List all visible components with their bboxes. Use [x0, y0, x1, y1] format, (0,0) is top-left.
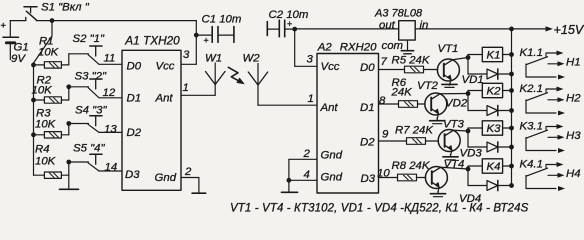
- wire S5 to D3 pin 14: [99, 170, 122, 172]
- junction rail K2: [509, 88, 514, 93]
- svg-text:A3 78L08: A3 78L08: [374, 8, 423, 20]
- svg-text:K1: K1: [487, 50, 501, 62]
- svg-text:VT3: VT3: [443, 119, 465, 131]
- svg-text:VT1 - VT4 - КТ3102, VD1 - VD4: VT1 - VT4 - КТ3102, VD1 - VD4 -КД522, К1…: [230, 203, 529, 215]
- antenna W2: [248, 64, 267, 106]
- junction stage 4 node: [66, 160, 71, 165]
- svg-text:H1: H1: [566, 57, 581, 69]
- A1 pin labels: [125, 61, 177, 185]
- svg-text:K4.1: K4.1: [520, 159, 543, 171]
- svg-text:+: +: [204, 36, 209, 46]
- svg-text:8: 8: [379, 95, 386, 107]
- A2 pin 2 Gnd wire: [289, 148, 317, 160]
- svg-text:+15V: +15V: [554, 23, 584, 37]
- junction rail K1: [509, 52, 514, 57]
- relay contact K4.1: [526, 162, 565, 191]
- svg-text:1: 1: [308, 93, 314, 105]
- wire VT3 collector to node: [453, 129, 468, 132]
- svg-text:D2: D2: [127, 127, 142, 139]
- svg-text:A1 TXH20: A1 TXH20: [124, 34, 180, 48]
- svg-text:D1: D1: [360, 102, 375, 114]
- wire VT4 emitter to ground: [438, 187, 439, 193]
- resistor R6 24K: [399, 101, 426, 108]
- svg-text:13: 13: [104, 124, 117, 136]
- +15V arrow: [546, 26, 554, 31]
- svg-text:com: com: [382, 40, 404, 52]
- transistor VT2: [425, 93, 447, 116]
- wire VT3 emitter to ground: [451, 150, 452, 156]
- svg-text:11: 11: [104, 53, 116, 65]
- svg-text:10K: 10K: [38, 47, 60, 59]
- wire junction down-diagonal to resistor rail: [34, 21, 53, 66]
- switch S2: [69, 46, 102, 64]
- label R5 24K: [392, 55, 431, 67]
- resistor R1 10K: [34, 62, 69, 68]
- wire node vertical stage 3: [68, 124, 70, 135]
- wire +supply to A3: [295, 28, 399, 30]
- svg-text:R4: R4: [35, 144, 50, 156]
- diode VD2: [468, 105, 512, 115]
- svg-text:W1: W1: [205, 53, 222, 65]
- svg-text:3: 3: [183, 49, 190, 61]
- wire S1 to C1 node (+9V): [36, 20, 196, 22]
- junction rail K4: [509, 164, 514, 169]
- relay supply rail: [511, 29, 513, 186]
- label R4 10K: [35, 144, 57, 168]
- ground A1: [198, 178, 200, 194]
- svg-text:A2: A2: [317, 41, 333, 53]
- svg-text:D0: D0: [360, 62, 375, 74]
- junction rail VD4: [509, 183, 514, 188]
- junction stage 2 node: [66, 84, 71, 89]
- svg-text:12: 12: [103, 87, 116, 99]
- wire A3 to +15V rail: [415, 28, 546, 30]
- ground VT3: [443, 154, 458, 160]
- svg-text:S4 "3": S4 "3": [75, 105, 107, 117]
- transistor VT3: [438, 130, 460, 153]
- switch S5: [69, 154, 102, 171]
- wire A2 D0 pin 7: [379, 69, 405, 71]
- wire node vertical stage 4: [68, 162, 70, 188]
- ground VT2: [430, 118, 445, 124]
- svg-text:10: 10: [377, 168, 390, 180]
- transistor VT4: [425, 167, 447, 190]
- label R6 24K: [391, 77, 414, 99]
- +9V resistor rail (left): [33, 65, 35, 175]
- A2 pin labels: [320, 61, 376, 185]
- wire node vertical stage 1: [68, 54, 70, 65]
- svg-text:Vcc: Vcc: [321, 61, 340, 73]
- svg-text:VT2: VT2: [417, 80, 439, 92]
- svg-text:10K: 10K: [32, 85, 54, 97]
- wire VT2 collector to node: [440, 93, 468, 95]
- relay contact K2.1: [526, 87, 565, 116]
- wire S2 to D0 pin 11: [99, 63, 122, 65]
- relay coil K2: [468, 83, 512, 97]
- ground TX bottom: [60, 188, 79, 190]
- svg-text:S3 "2": S3 "2": [75, 71, 107, 83]
- svg-text:D0: D0: [127, 61, 142, 73]
- svg-text:R7 24K: R7 24K: [395, 125, 434, 137]
- junction collector node VT4: [466, 167, 471, 172]
- label G1 9V: [11, 42, 29, 66]
- svg-text:R5 24K: R5 24K: [392, 55, 431, 67]
- svg-text:S1 "Вкл ": S1 "Вкл ": [41, 2, 90, 14]
- wire A2 D3 pin 10: [379, 177, 398, 179]
- relay coil K3: [468, 121, 512, 135]
- wire S4 to D2 pin 13: [99, 131, 122, 133]
- svg-text:10K: 10K: [35, 119, 57, 131]
- ground A2: [282, 191, 298, 193]
- switch S3: [69, 79, 102, 98]
- junction relay supply rail: [509, 27, 514, 32]
- junction stage 3 node: [66, 121, 71, 126]
- svg-text:H2: H2: [566, 93, 581, 105]
- A1 pin 1 Ant wire: [181, 82, 215, 95]
- wire node vertical stage 2: [68, 87, 70, 100]
- svg-text:K2: K2: [487, 86, 502, 98]
- svg-text:Vcc: Vcc: [156, 61, 175, 73]
- svg-text:2: 2: [303, 148, 311, 160]
- resistor R5 24K: [405, 66, 438, 73]
- wire node vertical K3/VD3: [467, 128, 469, 147]
- IC A1 TXH20 box: [122, 50, 181, 190]
- junction collector node VT2: [466, 91, 471, 96]
- wire W2 to A2 pin 1: [258, 104, 317, 106]
- svg-text:1: 1: [183, 82, 189, 94]
- svg-text:K1.1: K1.1: [520, 47, 543, 59]
- svg-text:D3: D3: [361, 173, 376, 185]
- junction rail-R2: [31, 98, 36, 103]
- junction collector node VT1: [466, 55, 471, 60]
- wire node vertical K2/VD2: [467, 91, 469, 111]
- node +9V junction after S1: [50, 18, 55, 23]
- svg-text:K4: K4: [487, 161, 501, 173]
- wire S3 to D1 pin 12: [99, 97, 122, 99]
- wire VT2 emitter to ground: [437, 114, 438, 120]
- IC A2 RXH20 box: [317, 54, 379, 194]
- junction rail K3: [509, 126, 514, 131]
- resistor R8 24K: [398, 174, 426, 181]
- junction rail VD3: [509, 145, 514, 150]
- svg-text:H3: H3: [566, 130, 581, 142]
- label R3 10K: [35, 108, 57, 131]
- svg-text:7: 7: [381, 56, 388, 68]
- label R2 10K: [32, 75, 54, 97]
- label R7 24K: [395, 125, 434, 137]
- ground A3: [407, 40, 409, 51]
- wire node vertical K1/VD1: [467, 55, 469, 75]
- svg-text:S5 "4": S5 "4": [73, 143, 105, 155]
- svg-text:4: 4: [304, 169, 310, 181]
- wire A2 Vcc pin 3: [295, 29, 317, 66]
- junction rail-R3: [31, 132, 36, 137]
- wire VT4 collector to node: [441, 167, 468, 169]
- switch S1: [24, 7, 37, 21]
- svg-text:out: out: [379, 20, 396, 32]
- junction rail VD1: [509, 72, 514, 77]
- junction rail-R1: [31, 63, 36, 68]
- relay contact K3.1: [526, 124, 565, 153]
- wire A2 D2 pin 9: [379, 140, 407, 142]
- svg-text:9: 9: [382, 129, 389, 141]
- svg-text:K3: K3: [487, 123, 502, 135]
- svg-text:VD2: VD2: [445, 98, 468, 110]
- svg-text:3: 3: [307, 54, 314, 66]
- svg-text:Ant: Ant: [320, 102, 339, 114]
- svg-text:10K: 10K: [35, 156, 57, 168]
- svg-text:2: 2: [184, 166, 192, 178]
- resistor R4 10K: [34, 172, 69, 178]
- junction collector node VT3: [466, 129, 471, 134]
- antenna W1: [206, 63, 226, 95]
- relay contact K1.1: [526, 51, 565, 80]
- svg-text:24K: 24K: [391, 87, 414, 99]
- capacitor C1 10m (electrolytic): [196, 27, 234, 46]
- svg-text:Ant: Ant: [155, 93, 174, 105]
- svg-text:H4: H4: [566, 168, 581, 180]
- transistor VT1: [437, 59, 459, 82]
- svg-text:Gnd: Gnd: [321, 172, 343, 184]
- svg-text:14: 14: [105, 162, 118, 174]
- relay coil K1: [468, 47, 512, 61]
- resistor R7 24K: [407, 138, 439, 145]
- svg-text:Gnd: Gnd: [155, 172, 177, 184]
- wire node vertical K4/VD4: [467, 166, 469, 186]
- svg-text:D3: D3: [125, 169, 140, 181]
- svg-text:C2 10m: C2 10m: [269, 9, 309, 21]
- diode VD4: [468, 180, 512, 190]
- regulator A3 78L08: [374, 8, 428, 53]
- A1 pin 3 Vcc wire: [181, 21, 196, 65]
- diode VD3: [468, 142, 512, 152]
- resistor R2 10K: [34, 97, 69, 103]
- junction C2 / A2 Vcc: [292, 27, 297, 32]
- diode VD1: [468, 69, 512, 79]
- junction C1 branch: [194, 33, 199, 38]
- junction pin4 gnd: [287, 178, 292, 183]
- wire A2 D1 pin 8: [379, 103, 399, 105]
- wire gnd vertical: [288, 159, 290, 192]
- svg-text:K3.1: K3.1: [520, 121, 543, 133]
- svg-text:+: +: [1, 21, 7, 32]
- svg-text:Gnd: Gnd: [321, 150, 343, 162]
- svg-text:R8 24K: R8 24K: [392, 160, 431, 172]
- svg-text:W2: W2: [243, 53, 261, 65]
- svg-text:G1: G1: [14, 42, 29, 54]
- switch S4: [69, 116, 102, 133]
- svg-text:D1: D1: [127, 93, 142, 105]
- label R1 10K: [38, 36, 60, 59]
- svg-text:9V: 9V: [11, 53, 26, 65]
- junction rail VD2: [509, 108, 514, 113]
- svg-text:C1 10m: C1 10m: [202, 14, 242, 26]
- relay coil K4: [468, 159, 512, 173]
- wire battery+ to S1: [10, 20, 25, 22]
- svg-text:VT1: VT1: [438, 43, 459, 55]
- ground VT1: [442, 84, 457, 88]
- svg-text:RXH20: RXH20: [340, 41, 377, 53]
- svg-text:VD1: VD1: [462, 74, 484, 86]
- battery G1: [1, 21, 19, 60]
- radio link zigzag arrow: [228, 67, 246, 87]
- wire VT1 collector to node: [453, 58, 468, 60]
- wire VT1 emitter to ground: [450, 80, 452, 86]
- svg-text:in: in: [420, 20, 429, 32]
- svg-text:S2 "1": S2 "1": [73, 33, 105, 45]
- resistor R3 10K: [34, 132, 69, 138]
- ground VT4: [430, 191, 445, 196]
- A1 pin 2 Gnd wire: [181, 166, 199, 178]
- A2 pin 4 Gnd wire: [289, 169, 317, 181]
- svg-text:D2: D2: [360, 137, 375, 149]
- svg-text:K2.1: K2.1: [520, 83, 543, 95]
- capacitor C2 10m (electrolytic): [267, 19, 294, 37]
- label R8 24K: [392, 160, 431, 172]
